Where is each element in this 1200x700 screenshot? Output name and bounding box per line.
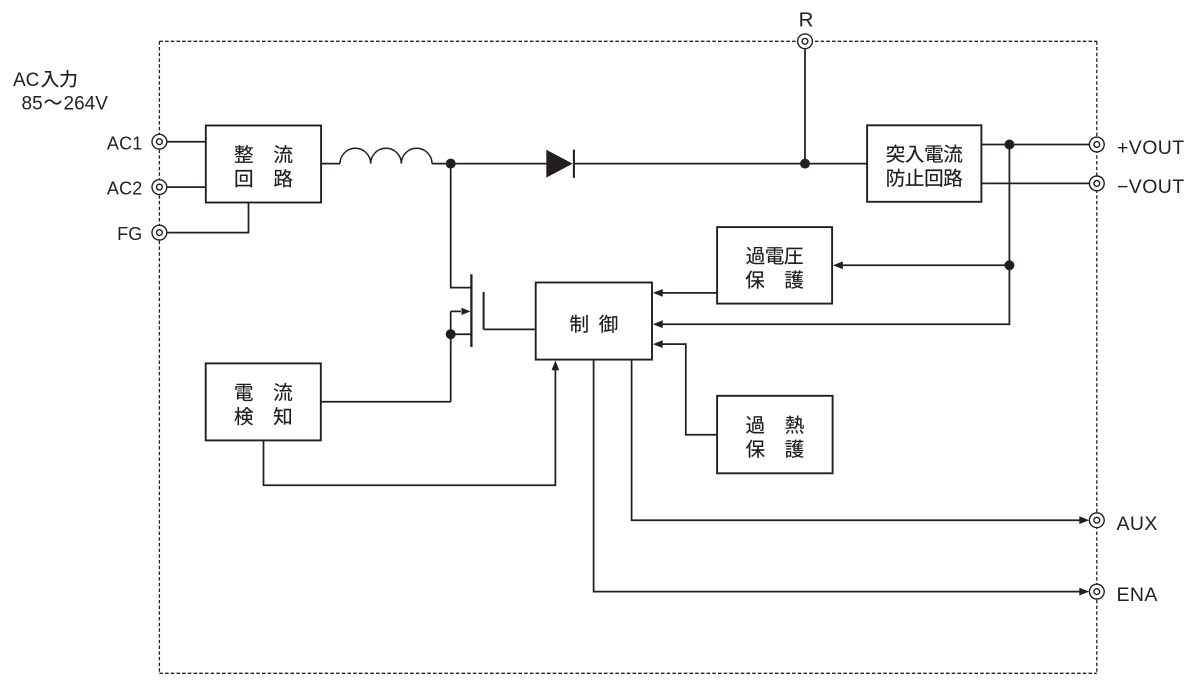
svg-text:264V: 264V	[64, 93, 109, 114]
svg-text:FG: FG	[117, 224, 142, 244]
svg-text:ENA: ENA	[1117, 584, 1158, 606]
svg-text:85: 85	[22, 93, 43, 114]
svg-text:R: R	[799, 9, 814, 32]
svg-text:−VOUT: −VOUT	[1117, 176, 1185, 198]
svg-text:AC1: AC1	[107, 133, 143, 153]
svg-text:AC: AC	[13, 70, 39, 91]
svg-text:AC2: AC2	[107, 179, 143, 199]
svg-text:+VOUT: +VOUT	[1117, 137, 1185, 159]
svg-text:AUX: AUX	[1117, 513, 1158, 535]
